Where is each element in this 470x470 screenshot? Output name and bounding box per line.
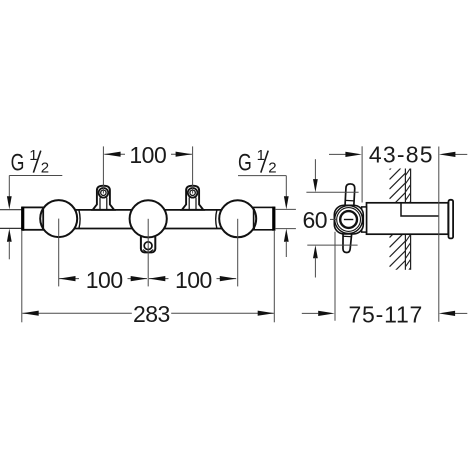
- centerline circle 3: [237, 219, 239, 287]
- valve head body: [334, 205, 363, 234]
- centerline circle 1: [58, 219, 60, 287]
- centerline circle 2: [147, 219, 149, 287]
- connector between valve and tube: [362, 207, 367, 232]
- extension line right (shared): [438, 147, 440, 322]
- dimension 100 top: [104, 142, 192, 168]
- mounting lug 2: [182, 186, 203, 210]
- left end block: [23, 207, 44, 231]
- svg-text:75-117: 75-117: [348, 301, 423, 327]
- svg-text:283: 283: [133, 301, 170, 327]
- extension line 43-85 left: [361, 146, 363, 202]
- handle top lug: [345, 184, 355, 207]
- dimension 43-85: [329, 142, 467, 168]
- svg-text:G: G: [238, 149, 252, 176]
- extension line 283 right: [273, 231, 275, 322]
- svg-text:100: 100: [175, 267, 212, 293]
- wire: left pipe stub: [0, 210, 23, 229]
- joint arc left of circle 3: [216, 210, 217, 229]
- dimension 75-117: [302, 301, 468, 327]
- wire: horizontal body bar: [42, 210, 255, 229]
- end flange ring: [449, 200, 454, 239]
- svg-text:100: 100: [86, 267, 123, 293]
- valve head rings: [330, 206, 363, 234]
- wall section with hatching: [390, 144, 411, 383]
- joint arc right of circle 1: [79, 210, 80, 229]
- extension line 283 left: [21, 231, 23, 322]
- svg-text:1: 1: [29, 147, 37, 164]
- dimension 100 bottom-right: [149, 267, 237, 293]
- node: valve circle 3: [219, 200, 256, 237]
- svg-text:60: 60: [303, 207, 328, 233]
- extension line 75-117 left: [334, 232, 336, 321]
- label G 1/2 right: [238, 147, 296, 257]
- node: valve circle 2: [130, 200, 167, 237]
- svg-text:43-85: 43-85: [369, 142, 434, 168]
- svg-text:1: 1: [257, 147, 265, 164]
- bottom outlet under middle circle: [141, 234, 155, 252]
- mounting lug 1: [93, 186, 114, 210]
- label G 1/2 left: [7, 147, 62, 259]
- handle bottom lug: [342, 232, 352, 253]
- right end block: [254, 207, 275, 231]
- svg-text:2: 2: [41, 160, 49, 177]
- svg-text:2: 2: [268, 160, 276, 177]
- extension line lug 2: [192, 146, 194, 193]
- in-wall tube body: [367, 203, 449, 234]
- inner sleeve step: [401, 203, 438, 216]
- node: valve circle 1: [40, 200, 77, 237]
- extension line lug 1: [102, 146, 104, 193]
- dimension 100 bottom-left: [59, 267, 147, 293]
- dimension 283: [22, 301, 274, 327]
- svg-text:G: G: [11, 149, 25, 176]
- dimension 60: [303, 159, 359, 277]
- svg-text:100: 100: [129, 142, 166, 168]
